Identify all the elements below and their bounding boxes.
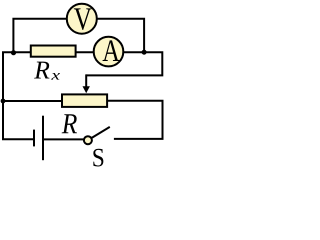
node C: left rail to rheostat junction bbox=[1, 99, 6, 104]
label Rx bbox=[34, 62, 49, 79]
label S bbox=[93, 149, 103, 167]
switch S bbox=[84, 127, 110, 144]
wire: voltmeter right to corner, down to node B bbox=[97, 19, 144, 53]
label Rx subscript bbox=[51, 73, 60, 80]
wire: battery positive plate to switch bbox=[43, 138, 84, 140]
wire: rheostat right terminal to right rail, down and left to switch contact bbox=[107, 101, 162, 139]
node B: junction of voltmeter branch and ammeter output bbox=[142, 50, 147, 55]
wire: resistor Rx to ammeter bbox=[76, 51, 95, 53]
wire: left rail node to rheostat left terminal bbox=[3, 100, 62, 102]
label R bbox=[62, 114, 77, 133]
rheostat R body bbox=[62, 94, 107, 107]
wire: main row left segment, left rail and battery lead bbox=[3, 52, 34, 139]
node A: junction of voltmeter branch and main row bbox=[11, 50, 16, 55]
battery cell bbox=[34, 116, 43, 161]
rheostat wiper arrow bbox=[83, 74, 90, 93]
voltmeter V bbox=[67, 4, 97, 34]
resistor Rx bbox=[31, 46, 76, 57]
wire: top-left L from node A up and right to voltmeter bbox=[13, 19, 66, 53]
wire: ammeter right through node B to right rail, down and left to wiper bbox=[86, 52, 162, 75]
ammeter A bbox=[94, 37, 124, 67]
